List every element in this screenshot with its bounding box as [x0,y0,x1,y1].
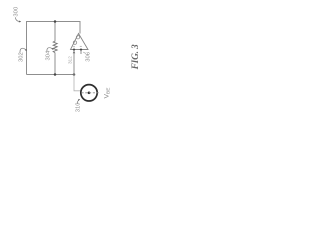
junction dot bottom-right node [73,73,76,76]
svg-text:306: 306 [85,51,91,62]
label 300 [14,6,20,17]
junction dot top node [54,20,57,23]
pin dot left input [73,48,75,50]
dashed axis line [81,92,100,94]
label 304 [45,50,51,61]
leader arrow for 304 [47,48,53,52]
svg-text:310: 310 [76,102,82,113]
op-amp bubble upper [76,36,79,39]
leader arrow for 300 [15,17,19,21]
label 312 (node at inverting input wire) [68,56,73,64]
op-amp U 306 triangle [71,34,89,50]
junction dot bottom node [54,73,57,76]
svg-text:300: 300 [14,6,20,17]
label 302 [18,52,24,62]
op-amp input mark left [73,46,75,48]
op-amp input mark right [80,45,82,47]
wire middle branch lower [54,53,56,75]
op-amp bubble lower [73,41,76,44]
wire sense line to circle [74,75,81,91]
svg-text:FIG. 3: FIG. 3 [131,44,141,70]
svg-text:312: 312 [68,56,73,64]
label 310 [76,102,82,113]
svg-text:VBE: VBE [103,87,111,99]
wire bottom [27,74,75,76]
label VBE [103,87,111,99]
leader arrow for 310 [77,100,78,104]
wire middle branch upper [54,22,56,42]
sensor center dot [88,91,91,94]
sensor circle 310 [81,85,97,101]
leader tick for 306 [83,52,85,53]
wire left input down [73,50,75,75]
svg-text:302: 302 [18,52,24,62]
pin dot right input [80,48,82,50]
resistor R 304 [53,41,57,53]
arrowhead into left input [73,50,75,53]
label 306 [85,51,91,62]
svg-text:304: 304 [45,50,51,61]
FIG. 3 caption [131,44,141,70]
wire right input stub [80,50,82,54]
wire outer loop (top + left + right drop) [27,22,81,75]
leader arrow for 302 [20,48,26,52]
